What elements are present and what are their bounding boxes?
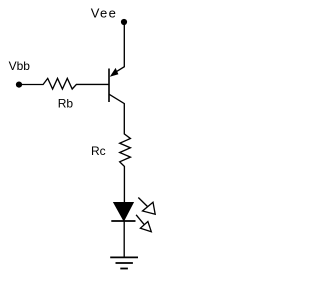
svg-text:Vee: Vee bbox=[91, 5, 117, 20]
svg-text:Vbb: Vbb bbox=[9, 59, 31, 73]
svg-text:Rc: Rc bbox=[91, 144, 106, 158]
svg-text:Rb: Rb bbox=[58, 96, 74, 110]
